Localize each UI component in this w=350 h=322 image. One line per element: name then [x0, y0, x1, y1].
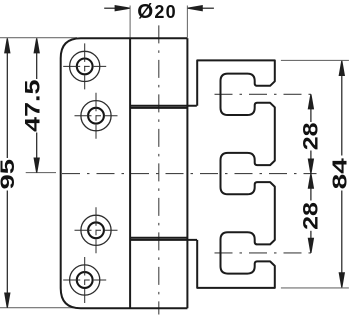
- svg-text:95: 95: [0, 159, 19, 190]
- svg-text:Ø20: Ø20: [137, 0, 177, 23]
- svg-text:28: 28: [298, 202, 322, 230]
- svg-text:28: 28: [298, 122, 322, 150]
- svg-text:47.5: 47.5: [21, 80, 45, 132]
- svg-text:84: 84: [329, 158, 350, 190]
